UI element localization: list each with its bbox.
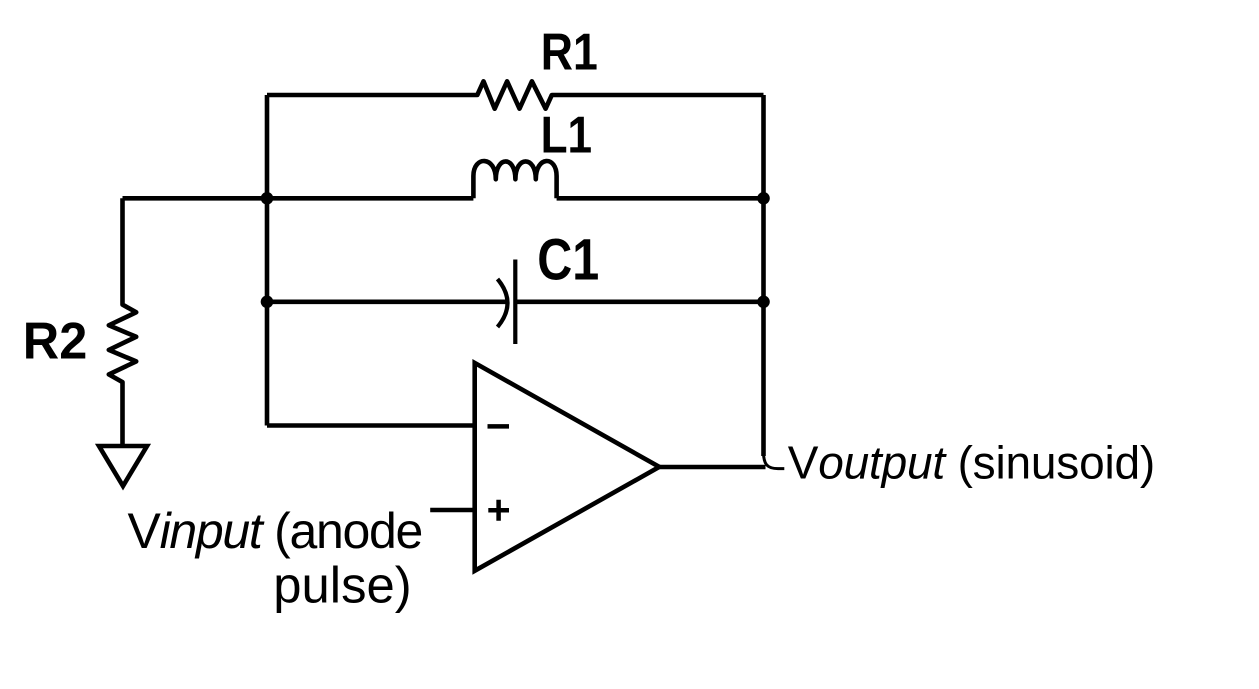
node Voutput label [788,437,1155,489]
capacitor C1 curved plate [498,279,508,327]
op-amp plus sign [488,500,509,521]
wire output corner curl [764,452,785,469]
wire left vertical [265,95,270,426]
op-amp U1 triangle [475,363,660,571]
ground symbol [99,446,147,486]
resistor R1 label [541,24,598,82]
wire output [659,465,765,470]
wire C1 row right [515,299,763,304]
svg-text:C1: C1 [537,227,599,292]
svg-text:Voutput (sinusoid): Voutput (sinusoid) [788,437,1155,489]
svg-text:L1: L1 [541,106,593,164]
node Vinput label line 1 [128,503,422,559]
node junction dot left C1 row [261,296,274,309]
capacitor C1 straight plate [513,260,517,345]
wire plus input stub [430,508,475,513]
wire C1 row left [267,299,506,304]
node junction dot right L1 row [757,192,770,205]
node Vinput label line 2 [273,557,411,614]
inductor L1 label [541,106,593,164]
node junction dot left L1 row [261,192,274,205]
resistor R2 label [23,313,88,371]
wire L1 row left [123,196,474,201]
wire minus input row [267,423,475,428]
svg-text:Vinput (anode: Vinput (anode [128,503,422,559]
svg-text:pulse): pulse) [273,557,411,614]
wire L1 row right [557,196,764,201]
inductor L1 [473,161,556,198]
wire right vertical (feedback) [761,95,766,456]
svg-text:R1: R1 [541,24,598,82]
op-amp minus sign [488,424,510,429]
svg-text:R2: R2 [23,313,88,371]
wire top row with resistor R1 zigzag [267,81,764,108]
node junction dot right C1 row [757,296,770,309]
resistor R2 (vertical zigzag) with leads [109,198,136,446]
capacitor C1 label [537,227,599,292]
